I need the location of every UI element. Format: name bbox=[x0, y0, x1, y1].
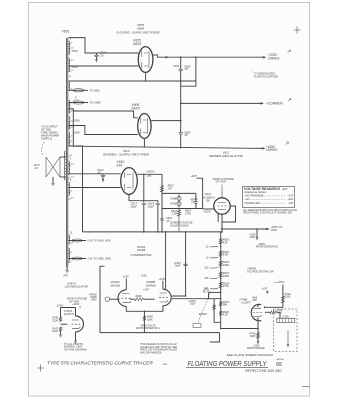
svg-text:6.3V TO V666, V664: 6.3V TO V666, V664 bbox=[88, 258, 112, 261]
capacitor C616 bbox=[190, 193, 198, 208]
svg-text:UNREG: UNREG bbox=[266, 148, 278, 152]
svg-text:220K: 220K bbox=[284, 296, 291, 299]
svg-text:AA: AA bbox=[162, 362, 167, 366]
wire HV return bbox=[68, 80, 195, 81]
svg-text:100: 100 bbox=[204, 267, 209, 270]
svg-text:FRONT-PANEL CONTROLS AT NORMAL: FRONT-PANEL CONTROLS AT NORMAL SET. bbox=[243, 212, 293, 215]
svg-text:20µF: 20µF bbox=[174, 265, 181, 268]
label +187 arrow bbox=[262, 288, 269, 294]
label 117V AC bbox=[34, 163, 41, 170]
svg-text:TYPE 570 CHARACTERISTIC-CURVE: TYPE 570 CHARACTERISTIC-CURVE TRACER bbox=[47, 360, 153, 365]
wire V605 output bbox=[153, 55, 265, 58]
resistor R621 bbox=[219, 250, 230, 257]
svg-text:V612: V612 bbox=[223, 150, 230, 154]
label V347A tube bbox=[64, 309, 74, 316]
capacitor C604 bbox=[94, 51, 107, 62]
label V740B bbox=[239, 297, 252, 304]
label +625V at V610 bbox=[146, 170, 156, 178]
svg-text:390K: 390K bbox=[223, 263, 229, 267]
terminal from R606 bbox=[89, 293, 119, 301]
wire V740B plate bbox=[258, 304, 265, 308]
wire pot bridge bbox=[179, 192, 196, 194]
wire screen out bbox=[162, 208, 203, 210]
wire grid V347A bbox=[61, 323, 68, 325]
svg-text:20µF: 20µF bbox=[147, 204, 155, 208]
tube V612 internals bbox=[218, 185, 227, 210]
svg-text:.05: .05 bbox=[100, 53, 104, 57]
tube V347A internals bbox=[72, 320, 81, 328]
svg-text:100K: 100K bbox=[147, 318, 153, 321]
wire comparator mid bus bbox=[165, 231, 167, 289]
svg-text:AND S/N RANGES.: AND S/N RANGES. bbox=[139, 351, 162, 354]
wire comparator link bbox=[172, 292, 221, 299]
title effective sn bbox=[246, 369, 282, 373]
svg-text:FROM DRIVER NO.1: FROM DRIVER NO.1 bbox=[136, 327, 161, 330]
connector box bbox=[277, 315, 295, 322]
fold tick bottom right bbox=[302, 386, 310, 388]
tap 250 bbox=[203, 277, 221, 280]
filament loop V666 bbox=[68, 257, 111, 261]
wire V640B plate bus bbox=[171, 232, 185, 296]
arrow mark +225V bbox=[288, 50, 291, 53]
svg-text:OF V637: OF V637 bbox=[216, 180, 227, 184]
wire heater tap return bbox=[68, 146, 82, 232]
filament loop to V606 bbox=[68, 99, 88, 104]
resistor R618 bbox=[171, 210, 181, 217]
label C628 bbox=[188, 300, 196, 306]
register mark bottom left bbox=[37, 365, 44, 372]
label +185 v640b bbox=[141, 274, 147, 278]
pin numbers bbox=[70, 38, 78, 235]
wire cap bridge bbox=[144, 201, 158, 203]
note to designated floating supplies bbox=[252, 70, 279, 78]
svg-text:6.3V TO V614, V616: 6.3V TO V614, V616 bbox=[88, 240, 112, 243]
label +187 bbox=[143, 288, 149, 292]
wire V612 cathode loop bbox=[218, 206, 235, 232]
wire C605 return loop bbox=[181, 57, 196, 86]
svg-text:V347A: V347A bbox=[67, 281, 76, 285]
resistor R646 bbox=[130, 295, 155, 301]
transformer T601 secondary winding 6 bbox=[68, 132, 69, 145]
svg-text:20µF: 20µF bbox=[130, 204, 138, 208]
svg-text:EFFECTIVE S/N 360: EFFECTIVE S/N 360 bbox=[246, 369, 282, 373]
wire V610 heater stub bbox=[129, 194, 144, 200]
winding label 250V upper bbox=[71, 49, 80, 53]
svg-text:obtained as follows:: obtained as follows: bbox=[244, 190, 267, 194]
svg-text:+COMMON: +COMMON bbox=[266, 101, 283, 105]
winding label 250V v606b bbox=[73, 131, 82, 135]
junction screen column bbox=[161, 231, 163, 233]
svg-text:+185: +185 bbox=[141, 274, 147, 278]
wire tap to V606 plate bbox=[68, 109, 137, 118]
wire cathodes bbox=[126, 306, 163, 312]
dashed boundary box bbox=[274, 309, 297, 352]
header screen supply rectifier bbox=[103, 153, 149, 157]
svg-text:2W: 2W bbox=[205, 199, 210, 203]
svg-text:6X4: 6X4 bbox=[117, 164, 123, 168]
transformer T601 secondary winding 8 bbox=[68, 182, 69, 195]
note to AC input bbox=[41, 125, 59, 141]
svg-text:-150 REGULATOR: -150 REGULATOR bbox=[64, 285, 88, 289]
svg-text:+625V: +625V bbox=[146, 170, 156, 174]
svg-text:TO V606: TO V606 bbox=[90, 101, 102, 105]
label +225V right bbox=[275, 280, 285, 284]
svg-text:C740: C740 bbox=[283, 315, 290, 318]
svg-text:250V: 250V bbox=[73, 131, 82, 135]
dashed leader to primary bbox=[42, 142, 44, 156]
tube V606 internals bbox=[141, 118, 148, 135]
label +625V UNREG bbox=[266, 145, 278, 152]
resistor R740 bbox=[281, 293, 291, 303]
note to all points bbox=[64, 343, 88, 351]
wire +625V unreg long bbox=[73, 146, 264, 149]
label V605 6AX5 bbox=[133, 39, 141, 47]
filament loop V614 bbox=[68, 239, 111, 243]
label +185 bbox=[123, 275, 129, 279]
svg-text:V664: V664 bbox=[271, 228, 278, 232]
tube V347A bbox=[76, 316, 84, 332]
label C620 bbox=[250, 233, 257, 239]
wire driver tap bbox=[256, 229, 258, 240]
title floating power supply bbox=[188, 361, 268, 368]
filament loop to V605 bbox=[68, 89, 100, 93]
transformer T601 core bbox=[66, 38, 67, 267]
label -150 regulator bbox=[64, 281, 88, 288]
svg-text:+DC READINGS: +DC READINGS bbox=[245, 195, 264, 198]
transformer T601 secondary winding 2 bbox=[68, 58, 69, 71]
svg-text:25µF: 25µF bbox=[189, 302, 196, 305]
resistor R626 lower bbox=[219, 310, 229, 317]
register mark top right bbox=[294, 27, 301, 34]
capacitor C618 bbox=[147, 202, 161, 232]
junction c617 bus bbox=[143, 231, 159, 233]
resistor R624 bbox=[219, 281, 230, 288]
note grid volts bbox=[136, 324, 161, 330]
svg-text:(12AT7): (12AT7) bbox=[64, 312, 74, 316]
tube V610 internals bbox=[125, 172, 133, 190]
junction plate bus bbox=[185, 231, 187, 297]
junctions bottom bus bbox=[220, 328, 259, 330]
svg-text:+187: +187 bbox=[143, 288, 149, 292]
svg-text:-150V: -150V bbox=[56, 303, 65, 307]
svg-text:100K: 100K bbox=[52, 330, 58, 333]
svg-text:SERIES REGULATOR: SERIES REGULATOR bbox=[209, 154, 243, 158]
wire bottom bus bbox=[221, 328, 258, 330]
svg-text:470: 470 bbox=[147, 175, 152, 178]
svg-text:95: 95 bbox=[276, 362, 283, 368]
svg-text:V610: V610 bbox=[123, 149, 130, 153]
svg-text:6AX5: 6AX5 bbox=[132, 107, 140, 111]
junction at C605 top bbox=[180, 56, 182, 58]
transformer T601 filament winding 9 bbox=[68, 235, 69, 243]
label +225V UNREG bbox=[268, 53, 280, 60]
wire V640A plate bbox=[125, 279, 127, 290]
transformer T601 primary winding bbox=[64, 151, 65, 180]
switch gang dashed bbox=[197, 293, 210, 324]
svg-text:.05: .05 bbox=[184, 133, 188, 137]
wire to filter caps bbox=[143, 174, 145, 203]
wire V605 cathode stub bbox=[145, 72, 147, 81]
svg-text:ARM: ARM bbox=[90, 299, 97, 302]
svg-text:250V: 250V bbox=[73, 119, 82, 123]
arrow mark common bbox=[288, 98, 291, 101]
resistor R622 bbox=[219, 260, 230, 267]
header comparator bbox=[131, 245, 152, 257]
svg-text:6.3V: 6.3V bbox=[74, 99, 79, 102]
svg-text:+AC: +AC bbox=[245, 198, 250, 201]
transformer T601 secondary winding 7 bbox=[68, 161, 69, 174]
transformer T601 filament winding 3 bbox=[68, 82, 69, 90]
svg-text:1000: 1000 bbox=[250, 236, 256, 239]
capacitor C619 bbox=[160, 217, 173, 223]
svg-text:SW640: SW640 bbox=[199, 313, 208, 316]
capacitor C606 bbox=[178, 86, 191, 148]
svg-text:V640B: V640B bbox=[247, 266, 256, 270]
svg-text:.05: .05 bbox=[97, 170, 101, 174]
wire lower tap to V605 bbox=[68, 65, 138, 67]
winding label 250V v606a bbox=[73, 119, 82, 123]
note all readings bbox=[242, 209, 297, 215]
svg-text:280K: 280K bbox=[222, 274, 229, 278]
wire +625 out bbox=[221, 228, 269, 230]
svg-text:250: 250 bbox=[203, 277, 209, 280]
wire primary bottom bbox=[60, 176, 66, 178]
transformer T601 bottom ground bbox=[65, 267, 69, 273]
wire V606 cathode stub bbox=[144, 139, 145, 148]
transformer T601 filament winding 10 bbox=[68, 248, 69, 262]
svg-text:250V: 250V bbox=[71, 49, 80, 53]
tap 500 bbox=[204, 288, 221, 291]
resistor R347 bbox=[52, 327, 62, 333]
svg-text:FLOATING SUPPLIES: FLOATING SUPPLIES bbox=[254, 75, 278, 79]
svg-text:6AX5: 6AX5 bbox=[133, 42, 141, 46]
svg-text:68K: 68K bbox=[253, 299, 258, 302]
wire feedback drop bbox=[210, 333, 220, 342]
wire -150 node bbox=[61, 308, 76, 318]
svg-text:VOLTAGE SETTING SW: VOLTAGE SETTING SW bbox=[247, 270, 274, 274]
svg-text:100K: 100K bbox=[250, 335, 256, 338]
tap 20 bbox=[205, 246, 222, 249]
svg-text:+625: +625 bbox=[282, 188, 288, 191]
wire cathode down bbox=[144, 311, 146, 333]
svg-text:FLOATING - SUPPLY RECTIFIERS: FLOATING - SUPPLY RECTIFIERS bbox=[117, 31, 160, 35]
svg-text:T601: T601 bbox=[62, 30, 70, 34]
tube V610 bbox=[121, 168, 138, 195]
label +625 small bbox=[191, 174, 197, 178]
tube V606 bbox=[138, 114, 151, 139]
tube V640A bbox=[118, 290, 126, 307]
svg-text:½12AT7: ½12AT7 bbox=[241, 301, 252, 305]
svg-text:+100: +100 bbox=[287, 198, 293, 201]
dashed box arrow bbox=[287, 330, 289, 347]
wire grid feed bbox=[197, 178, 203, 208]
wire V347A cathode bbox=[75, 332, 77, 343]
pot R617 bbox=[171, 202, 182, 206]
svg-text:220K: 220K bbox=[51, 319, 58, 322]
capacitor C617 bbox=[130, 202, 147, 232]
capacitor C610 bbox=[97, 168, 105, 182]
tube V612 bbox=[214, 198, 230, 214]
label to V606 bbox=[90, 101, 102, 105]
resistor R749 bbox=[249, 333, 259, 339]
svg-text:43K: 43K bbox=[223, 240, 228, 244]
note from cathode V637 bbox=[213, 177, 234, 184]
ground primary bbox=[51, 177, 55, 186]
resistor R625 lower bbox=[219, 300, 229, 307]
transformer T601 label bbox=[62, 30, 70, 34]
wire V610 output bbox=[137, 173, 162, 175]
svg-text:SCREEN - SUPPLY RECTIFIER: SCREEN - SUPPLY RECTIFIER bbox=[103, 153, 149, 157]
title underline bbox=[186, 367, 268, 369]
tap 10 bbox=[206, 257, 222, 260]
label R64x bbox=[252, 296, 257, 302]
voltage readings box bbox=[243, 187, 295, 208]
wire V606 output bbox=[151, 120, 181, 122]
note grid from driver bbox=[256, 243, 279, 249]
label V640B bbox=[146, 280, 156, 287]
switch contacts bbox=[203, 288, 222, 294]
svg-text:R617: R617 bbox=[171, 203, 178, 206]
wire common bus bbox=[181, 102, 263, 104]
wire lower long bbox=[72, 109, 74, 146]
wire top tap to V605 plate bbox=[68, 38, 138, 53]
svg-text:COMPARATOR: COMPARATOR bbox=[131, 253, 152, 257]
wire main low bus bbox=[83, 231, 221, 233]
svg-text:+325V: +325V bbox=[203, 210, 211, 214]
label +625V to bbox=[271, 225, 283, 232]
wire to connector bbox=[277, 312, 281, 318]
ground -150 bbox=[59, 332, 63, 338]
tube V640A internals bbox=[122, 294, 132, 303]
transformer T601 secondary winding 5 bbox=[68, 116, 69, 129]
svg-text:-150: -150 bbox=[288, 202, 294, 205]
label -150 from driver bbox=[247, 344, 265, 350]
primary phasing cross bbox=[46, 157, 60, 177]
note parts values bbox=[139, 343, 177, 354]
junction common bbox=[180, 103, 182, 105]
label voltage setting bbox=[247, 266, 274, 273]
svg-text:+225V: +225V bbox=[159, 278, 167, 281]
svg-text:1.2M: 1.2M bbox=[171, 213, 177, 216]
tap 100 bbox=[204, 267, 221, 270]
label V606 6AX5 bbox=[132, 103, 140, 111]
svg-text:+187: +187 bbox=[262, 288, 268, 291]
svg-text:25µF: 25µF bbox=[190, 200, 197, 203]
resistor R615 bbox=[160, 185, 174, 193]
header V612 bbox=[223, 150, 230, 154]
svg-text:FROM DRIVER: FROM DRIVER bbox=[247, 347, 265, 350]
wire V612 grid bbox=[203, 208, 214, 210]
svg-text:+625: +625 bbox=[191, 174, 197, 178]
header V610 bbox=[123, 149, 130, 153]
wire primary top bbox=[60, 156, 66, 158]
svg-text:39K: 39K bbox=[223, 303, 228, 307]
label SW640 bbox=[199, 313, 208, 316]
svg-text:(6AN8): (6AN8) bbox=[146, 283, 156, 287]
resistor R742 bbox=[270, 309, 283, 315]
note from cathode bbox=[67, 298, 88, 309]
capacitor C622 bbox=[174, 262, 189, 268]
title type 570 bbox=[47, 360, 153, 365]
label PRI bbox=[64, 274, 68, 277]
svg-text:(6AN8): (6AN8) bbox=[111, 283, 121, 287]
capacitor C605 bbox=[173, 57, 191, 86]
tube V640B bbox=[163, 289, 171, 306]
svg-text:PRI: PRI bbox=[64, 274, 68, 277]
wire V740B grid out bbox=[265, 311, 270, 313]
header floating supply rectifiers bbox=[117, 31, 160, 35]
voltage readings rows bbox=[245, 195, 294, 205]
wire tap to V610 plate bbox=[68, 173, 120, 175]
junction driver tap bbox=[256, 228, 258, 230]
label +325V bbox=[184, 210, 211, 216]
wire +225 drop bbox=[265, 285, 283, 308]
resistor R620 bbox=[219, 238, 230, 245]
label V610 6X4 bbox=[117, 160, 125, 168]
voltage readings title bbox=[244, 187, 288, 194]
svg-text:ADJUST SW610: ADJUST SW610 bbox=[169, 224, 189, 227]
tube V740B bbox=[251, 304, 261, 320]
wire V640B plate bbox=[159, 278, 167, 289]
label +COMMON bbox=[266, 101, 283, 105]
svg-text:20: 20 bbox=[205, 246, 209, 249]
svg-text:+185: +185 bbox=[123, 275, 129, 279]
tube V605 internals bbox=[142, 51, 149, 69]
junction V610 output bbox=[143, 174, 145, 176]
transformer T601 secondary winding 4 bbox=[68, 100, 69, 113]
label V640A bbox=[111, 280, 121, 287]
note see plate sweep bbox=[227, 354, 274, 357]
svg-text:FLOATING POWER SUPPLY: FLOATING POWER SUPPLY bbox=[188, 361, 268, 368]
junction C605 loop bbox=[195, 56, 197, 58]
svg-text:27K: 27K bbox=[167, 187, 173, 190]
wire screen column bbox=[162, 174, 179, 232]
svg-text:SEE PLATE-SWEEP DIAGRAM: SEE PLATE-SWEEP DIAGRAM bbox=[227, 354, 274, 357]
wire tap2 to V610 bbox=[68, 187, 120, 189]
svg-text:C605: C605 bbox=[173, 65, 180, 68]
svg-text:R616: R616 bbox=[171, 197, 178, 200]
arrow mark 625 unreg bbox=[286, 142, 289, 145]
svg-text:+225V: +225V bbox=[277, 280, 285, 284]
divider bus bbox=[220, 232, 222, 328]
note screen voltage bbox=[169, 222, 193, 228]
page number 95 bbox=[276, 359, 284, 368]
svg-text:240: 240 bbox=[203, 288, 209, 291]
gang box bbox=[193, 324, 201, 328]
resistor R648 bbox=[143, 316, 154, 322]
junction V606 output bbox=[180, 120, 182, 122]
svg-text:6.8K: 6.8K bbox=[223, 253, 229, 257]
header V605 V606 bbox=[137, 23, 144, 31]
svg-text:+175: +175 bbox=[287, 195, 293, 198]
transformer pin ticks bbox=[68, 42, 74, 263]
wire V740B cathode bbox=[257, 317, 259, 343]
header series regulator bbox=[209, 154, 243, 158]
resistor R346 bbox=[51, 317, 62, 323]
title AA mark bbox=[162, 362, 167, 366]
svg-text:277K: 277K bbox=[222, 284, 229, 288]
tube V740B internals bbox=[253, 308, 262, 316]
svg-text:SUPPLY): SUPPLY) bbox=[41, 137, 52, 141]
svg-text:270K: 270K bbox=[184, 212, 191, 215]
svg-text:TO V605: TO V605 bbox=[90, 89, 101, 92]
svg-text:.05: .05 bbox=[184, 67, 188, 71]
svg-text:UNREG: UNREG bbox=[268, 56, 280, 60]
pot R616 bbox=[171, 196, 182, 200]
junction 625 bus bbox=[220, 231, 223, 233]
wire aux divider bbox=[213, 299, 221, 323]
svg-text:4.3K: 4.3K bbox=[223, 313, 229, 317]
